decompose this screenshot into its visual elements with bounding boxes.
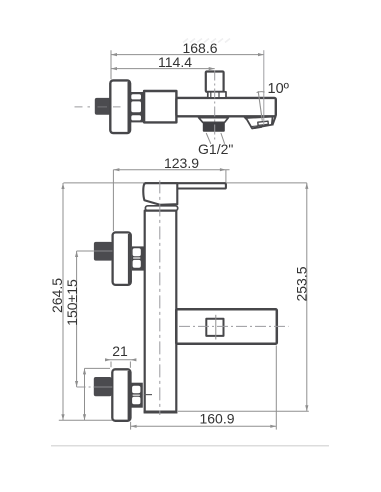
dimension 114.4 line — [111, 54, 215, 70]
dimension 253.5 (right) — [293, 183, 309, 411]
aerator lip — [252, 127, 262, 129]
spout (front view) — [176, 309, 276, 343]
lower wall flange (front view) — [112, 369, 130, 421]
front body vertical centerline — [159, 180, 161, 415]
dimension 168.6 line — [111, 40, 264, 56]
dome ring — [145, 206, 177, 211]
spout barrel (side view) — [176, 98, 275, 116]
svg-text:21: 21 — [112, 343, 128, 359]
svg-text:150±15: 150±15 — [64, 279, 80, 326]
vertical centerline through cartridge and G1/2 — [214, 71, 216, 141]
upper wall flange (front view) — [113, 232, 131, 285]
G1/2 leader lines — [206, 133, 211, 144]
svg-text:264.5: 264.5 — [49, 278, 65, 313]
nut mid-line tick into body — [144, 394, 153, 396]
wall flange (side view) — [110, 80, 130, 133]
aerator (tilted outlet) — [246, 117, 273, 129]
upper union centerline — [77, 250, 94, 252]
aerator inner rectangle — [258, 121, 269, 125]
dimension 21 — [105, 343, 136, 368]
spout square vertical centerline — [215, 315, 217, 340]
aerator slot line — [250, 125, 258, 128]
dimension 150±15 — [64, 251, 80, 387]
diverter base — [208, 92, 226, 98]
svg-text:160.9: 160.9 — [199, 411, 234, 427]
upper union centerline over knob — [94, 250, 112, 252]
svg-text:10º: 10º — [268, 81, 290, 97]
spout centerline — [179, 325, 289, 327]
upper union knob (dark square) — [94, 242, 113, 261]
diverter knob on top — [206, 72, 224, 92]
spout square detail — [206, 319, 223, 336]
lower union centerline — [77, 386, 120, 388]
faint watermark remnant — [183, 39, 230, 43]
extension line right (outlet centre) — [263, 50, 265, 125]
spout tip underside connector — [244, 116, 247, 119]
G1/2 threaded nipple (dark) — [203, 122, 225, 132]
handle cap (front view) — [143, 183, 177, 205]
body (front view) — [145, 211, 177, 413]
body right edge over spout — [175, 309, 177, 343]
dimension 160.9 — [131, 411, 277, 428]
horizontal centerline over handle (side view) — [75, 106, 121, 108]
hex nut (side view) — [131, 92, 144, 122]
G1/2 collar (trapezoid under body) — [199, 118, 229, 123]
top extension line (handle top level) — [63, 182, 306, 184]
lower union knob (dark square) — [94, 377, 112, 396]
cartridge housing (side view body) — [144, 91, 176, 122]
lever handle bar (front view) — [145, 183, 226, 188]
dimension 123.9 — [113, 155, 229, 172]
page divider line — [51, 445, 329, 447]
body bottom thick edge — [144, 411, 178, 414]
handle knob (dark square, side view) — [95, 98, 112, 115]
dimension 264.5 (left outer) — [49, 183, 65, 420]
160.9 extension lines — [130, 422, 132, 430]
svg-text:123.9: 123.9 — [164, 155, 199, 171]
extension line at lever tip — [225, 170, 227, 183]
264.5 bottom extension — [59, 419, 112, 421]
lower union centerline over knob — [94, 386, 113, 388]
flange height witness line — [83, 368, 110, 420]
spout right edge (tilted) — [272, 116, 275, 125]
lower hex nut (front view) — [132, 383, 143, 408]
svg-text:253.5: 253.5 — [293, 266, 309, 301]
extension line at wall face (front) — [112, 170, 114, 231]
angle tick/arc — [257, 91, 265, 94]
flange face line — [128, 82, 130, 132]
svg-text:G1/2": G1/2" — [198, 141, 233, 157]
svg-text:114.4: 114.4 — [158, 54, 192, 70]
extension line left (wall face) — [110, 50, 112, 79]
10 degree slant line — [258, 91, 262, 121]
upper hex nut (front view) — [132, 246, 144, 270]
253.5 bottom extension — [178, 410, 309, 412]
